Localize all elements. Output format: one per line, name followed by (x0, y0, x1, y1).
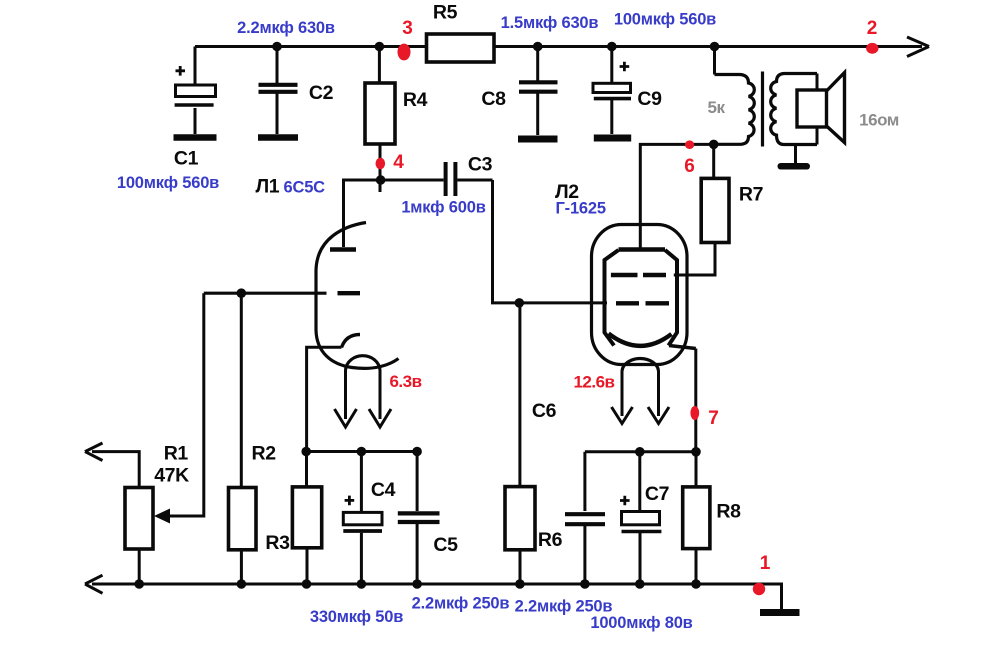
resistor R3 (292, 452, 321, 585)
svg-text:R2: R2 (252, 443, 277, 465)
ground symbol (760, 609, 800, 616)
tube Л2 envelope (592, 225, 688, 365)
wire Л1 cathode rail (305, 450, 418, 453)
node rail R2 (237, 579, 247, 589)
node rail C6 bottom (580, 579, 590, 589)
node grid Л2 junction (515, 298, 525, 308)
tube Л2 heater arrows (612, 371, 670, 424)
node 4 junction (376, 175, 386, 185)
svg-text:6.3в: 6.3в (389, 372, 421, 391)
red dot node 4 (376, 158, 386, 170)
tube Л1 cathode (307, 335, 360, 452)
node rail C4 bottom (357, 579, 367, 589)
svg-text:C2: C2 (309, 82, 334, 104)
svg-text:6С5С: 6С5С (284, 179, 326, 197)
tube Л1 anode (330, 180, 381, 250)
wire bus to transformer primary (713, 47, 716, 75)
red dot node 7 (690, 406, 699, 420)
svg-text:C8: C8 (481, 88, 506, 110)
svg-text:1мкф 600в: 1мкф 600в (401, 199, 485, 217)
node rail R8 (691, 447, 701, 457)
red dot node 3 (398, 44, 411, 61)
capacitor C8 (518, 47, 558, 140)
red dot node 6 (685, 140, 694, 149)
node rail C7 bottom (635, 579, 645, 589)
svg-text:R1: R1 (164, 443, 189, 465)
resistor R8 (683, 452, 710, 584)
svg-text:R3: R3 (265, 532, 290, 554)
node rail C7 (635, 447, 645, 457)
tube Л1 envelope (316, 223, 399, 369)
svg-text:7: 7 (708, 408, 719, 429)
node bus transformer (710, 42, 720, 52)
svg-text:R5: R5 (433, 2, 458, 24)
svg-text:R7: R7 (739, 184, 763, 206)
wire secondary to speaker bottom (816, 127, 819, 145)
node rail R8 bottom (691, 579, 701, 589)
wire grid to R1 wiper (168, 293, 204, 516)
tube Л2 screen grid dashes (611, 273, 666, 277)
svg-text:C1: C1 (174, 148, 199, 170)
R1 top arrow (85, 443, 103, 461)
wire transformer to plate Л2 (640, 144, 713, 250)
svg-text:1: 1 (760, 553, 771, 574)
svg-text:Г-1625: Г-1625 (556, 200, 606, 218)
node rail R1 (134, 579, 144, 589)
svg-text:R6: R6 (538, 529, 563, 551)
potentiometer R1 (92, 452, 153, 584)
tube Л2 anode (605, 250, 678, 346)
svg-text:2.2мкф 630в: 2.2мкф 630в (237, 19, 335, 37)
tube Л1 heater arrows (335, 370, 392, 427)
resistor R5 (427, 34, 495, 62)
capacitor C5 (398, 452, 440, 585)
speaker (797, 73, 845, 143)
transformer secondary (771, 74, 817, 145)
wire Л2 cathode rail (585, 450, 696, 453)
capacitor C4 (343, 452, 382, 585)
transformer core (761, 72, 764, 147)
node rail C4 (357, 447, 367, 457)
svg-text:3: 3 (402, 18, 413, 39)
resistor R6 (505, 303, 535, 584)
node rail R3 bottom (302, 579, 312, 589)
tube Л1 grid (204, 292, 360, 295)
tube Л1 heater hump (346, 356, 381, 370)
svg-text:C3: C3 (468, 154, 493, 176)
resistor R7 (674, 144, 729, 275)
node rail R3 (301, 447, 311, 457)
svg-text:1.5мкф 630в: 1.5мкф 630в (501, 14, 599, 32)
capacitor C7 (620, 452, 661, 584)
resistor R2 (229, 293, 257, 584)
tube Л2 heater hump (622, 358, 659, 371)
arrow ground rail left (85, 575, 103, 593)
node grid R2 (237, 288, 247, 298)
svg-text:C5: C5 (433, 534, 458, 556)
arrow output node 2 (907, 37, 929, 57)
speaker ground stub (794, 145, 797, 164)
svg-text:Л1: Л1 (256, 176, 280, 198)
tube Л2 cathode (609, 334, 696, 349)
wire bottom ground rail (92, 584, 782, 610)
svg-text:4: 4 (393, 152, 404, 173)
capacitor C1 (174, 47, 217, 138)
svg-text:C6: C6 (532, 400, 557, 422)
tube Л2 control grid dashes (616, 301, 669, 305)
R1 wiper arrow (154, 509, 170, 524)
svg-text:C9: C9 (637, 88, 662, 110)
svg-text:2.2мкф 250в: 2.2мкф 250в (412, 595, 510, 613)
node rail R6 bottom (515, 579, 525, 589)
capacitor C2 (258, 47, 298, 138)
wire C3 to grid Л2 (493, 180, 608, 303)
svg-text:330мкф 50в: 330мкф 50в (310, 608, 403, 626)
svg-text:100мкф 560в: 100мкф 560в (614, 11, 716, 29)
svg-text:C4: C4 (371, 479, 396, 501)
capacitor C9 (593, 47, 631, 139)
capacitor C6 (565, 452, 605, 584)
svg-text:12.6в: 12.6в (573, 373, 614, 392)
node rail C5 (412, 447, 422, 457)
wire top supply bus (195, 45, 922, 48)
svg-text:R4: R4 (403, 89, 428, 111)
node rail C5 bottom (412, 579, 422, 589)
wire secondary to speaker top (816, 74, 819, 91)
node bus C8 (533, 42, 543, 52)
svg-text:C7: C7 (645, 483, 669, 505)
red dot node 2 (866, 43, 878, 54)
resistor R4 (365, 47, 395, 193)
capacitor C3 (381, 162, 493, 196)
svg-text:5к: 5к (708, 98, 726, 117)
transformer T1 primary 5k (715, 75, 755, 145)
svg-text:2.2мкф 250в: 2.2мкф 250в (515, 598, 613, 616)
svg-text:1000мкф 80в: 1000мкф 80в (590, 614, 692, 632)
svg-text:2: 2 (867, 18, 878, 39)
wire cathode Л2 to node 7 (694, 349, 697, 452)
svg-text:100мкф 560в: 100мкф 560в (117, 174, 219, 192)
svg-text:6: 6 (684, 156, 695, 177)
node bus C9 (607, 42, 617, 52)
node transformer R7 (709, 140, 719, 150)
node bus R4 (375, 42, 385, 52)
svg-text:R8: R8 (716, 501, 741, 523)
svg-text:47K: 47K (154, 465, 189, 487)
node bus C2 (272, 42, 282, 52)
speaker ground bar (778, 163, 811, 170)
svg-text:16ом: 16ом (859, 111, 899, 130)
red dot node 1 (753, 583, 765, 595)
